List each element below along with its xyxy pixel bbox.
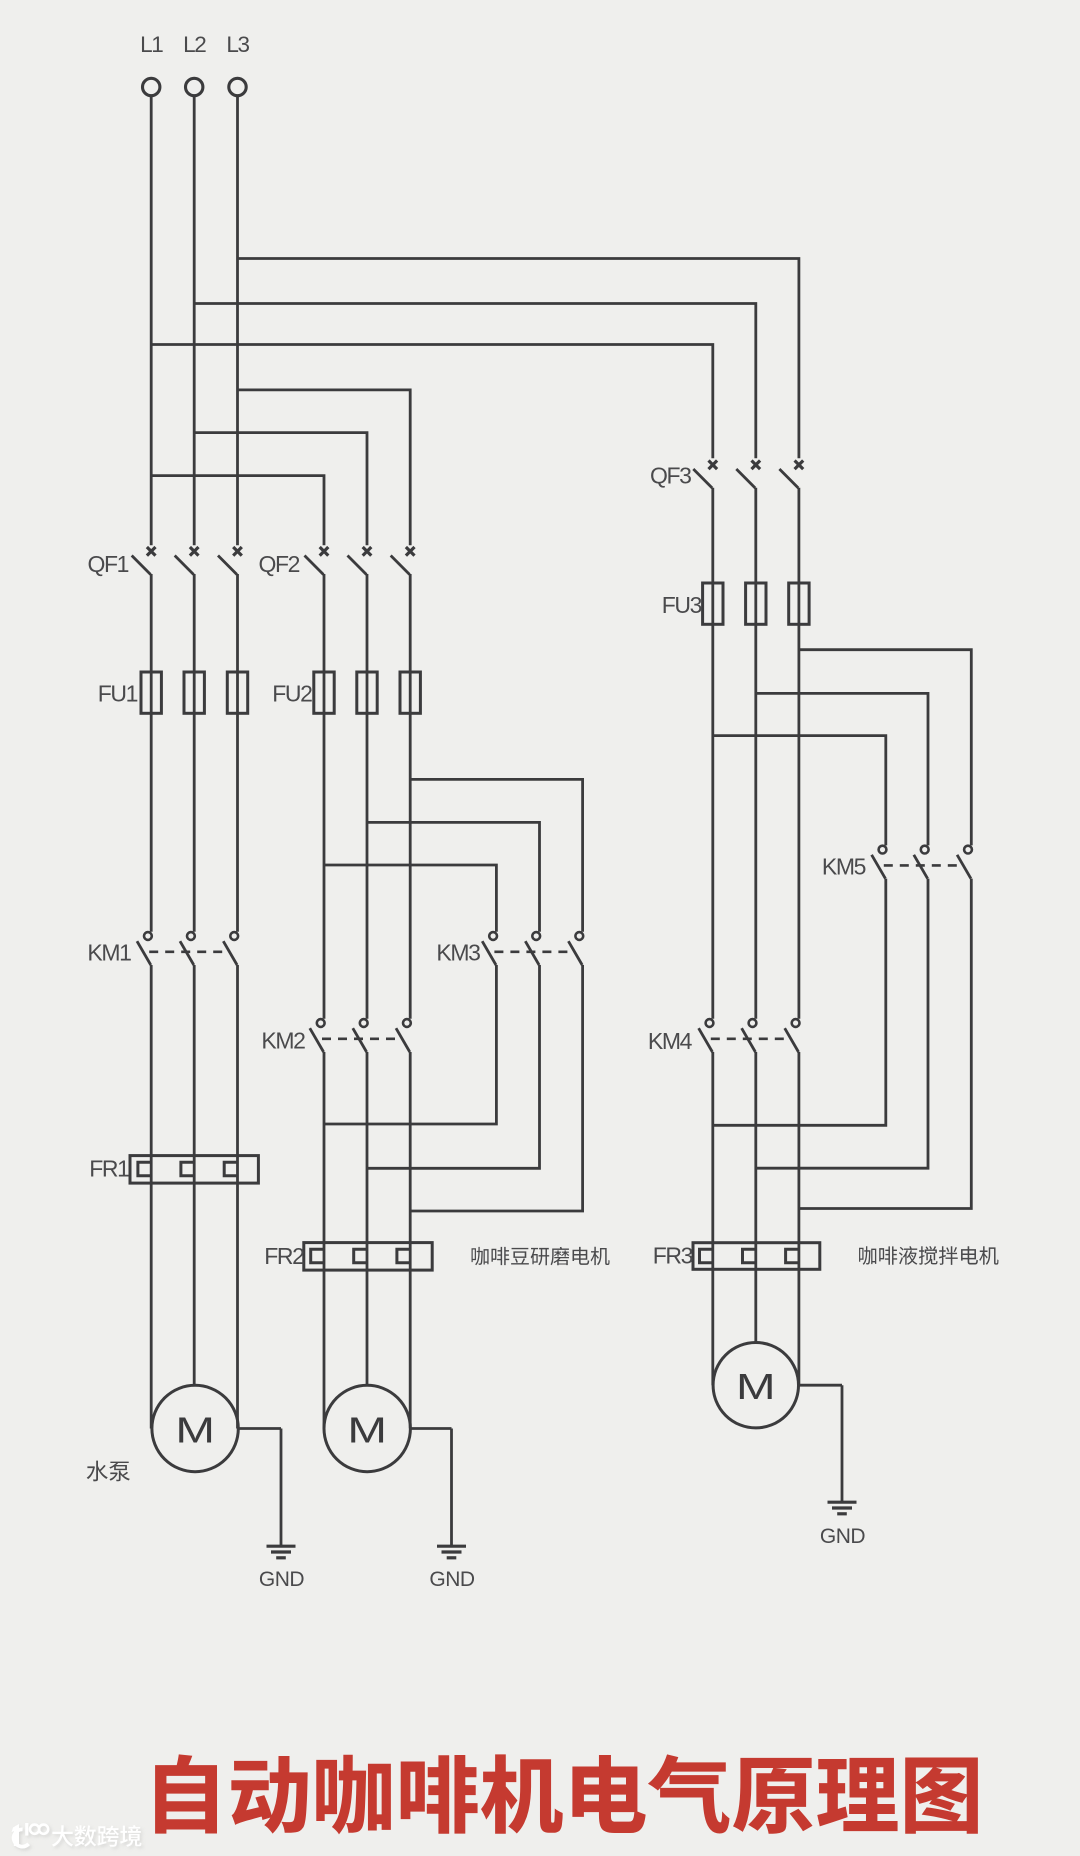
svg-text:KM1: KM1 [87, 940, 131, 966]
svg-text:FU1: FU1 [98, 681, 138, 707]
svg-text:FR3: FR3 [653, 1243, 693, 1269]
svg-text:QF2: QF2 [258, 551, 299, 577]
svg-text:M: M [347, 1410, 387, 1450]
svg-text:M: M [175, 1410, 215, 1450]
svg-text:KM5: KM5 [822, 854, 866, 880]
svg-text:QF3: QF3 [650, 463, 691, 489]
svg-text:FR1: FR1 [89, 1156, 129, 1182]
svg-text:M: M [736, 1367, 776, 1407]
svg-text:GND: GND [820, 1525, 866, 1548]
svg-text:KM4: KM4 [648, 1028, 693, 1054]
svg-text:L2: L2 [183, 32, 206, 57]
svg-text:GND: GND [429, 1568, 475, 1591]
svg-text:GND: GND [259, 1568, 305, 1591]
svg-text:KM2: KM2 [261, 1028, 305, 1054]
svg-text:FU3: FU3 [662, 592, 702, 618]
svg-text:KM3: KM3 [436, 940, 480, 966]
svg-text:QF1: QF1 [87, 551, 128, 577]
svg-text:FU2: FU2 [272, 681, 312, 707]
svg-text:FR2: FR2 [264, 1243, 304, 1269]
svg-text:L3: L3 [226, 32, 249, 57]
svg-text:L1: L1 [140, 32, 163, 57]
